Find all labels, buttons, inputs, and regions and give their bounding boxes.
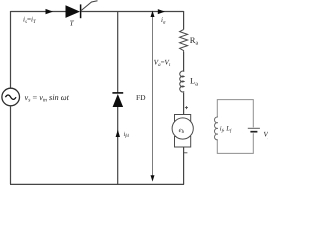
motor brush bottom bbox=[175, 137, 191, 148]
bottom wire bbox=[10, 183, 184, 185]
label Ra bbox=[190, 35, 199, 47]
freewheeling diode FD bbox=[112, 93, 123, 107]
voltage arrow V_a = V_t bbox=[151, 11, 155, 182]
label V_a = V_t bbox=[154, 59, 171, 69]
motor brush top bbox=[175, 115, 191, 126]
freewheeling diode branch wire lower bbox=[117, 107, 119, 184]
ac source V_s bbox=[2, 88, 20, 106]
label i_f, L_f bbox=[220, 126, 232, 133]
inductor La bbox=[180, 71, 184, 92]
motor armature circle e_b bbox=[172, 118, 193, 139]
label i_a bbox=[161, 16, 166, 26]
label i_s = i_T bbox=[23, 16, 37, 26]
resistor Ra bbox=[180, 30, 188, 53]
left wire lower bbox=[10, 106, 12, 184]
label La bbox=[190, 76, 198, 88]
label FD bbox=[136, 93, 146, 102]
svg-text:FD: FD bbox=[136, 93, 146, 102]
minus terminal bbox=[184, 152, 188, 154]
left wire upper bbox=[10, 11, 12, 88]
battery Vf bbox=[248, 128, 260, 131]
plus terminal bbox=[185, 106, 188, 109]
current arrow i_fd bbox=[116, 130, 120, 137]
label Vf bbox=[264, 131, 270, 141]
thyristor T bbox=[66, 4, 81, 18]
field circuit loop bbox=[217, 100, 253, 154]
wire inductor to motor bbox=[183, 92, 185, 114]
label i_fd bbox=[124, 131, 130, 138]
current arrow i_s bbox=[46, 9, 54, 14]
freewheeling diode branch wire upper bbox=[117, 12, 119, 93]
right branch wire from corner to resistor bbox=[183, 11, 185, 30]
wire motor to bottom bbox=[183, 147, 185, 184]
current arrow i_a bbox=[158, 9, 165, 14]
wire top from source to thyristor bbox=[11, 11, 66, 13]
wire top from thyristor to right corner bbox=[81, 11, 184, 13]
thyristor gate lead bbox=[81, 1, 98, 11]
label T bbox=[70, 19, 75, 28]
field winding Lf bbox=[214, 117, 217, 140]
label v_s = v_m sin wt bbox=[25, 93, 70, 104]
wire resistor to inductor bbox=[183, 52, 185, 72]
